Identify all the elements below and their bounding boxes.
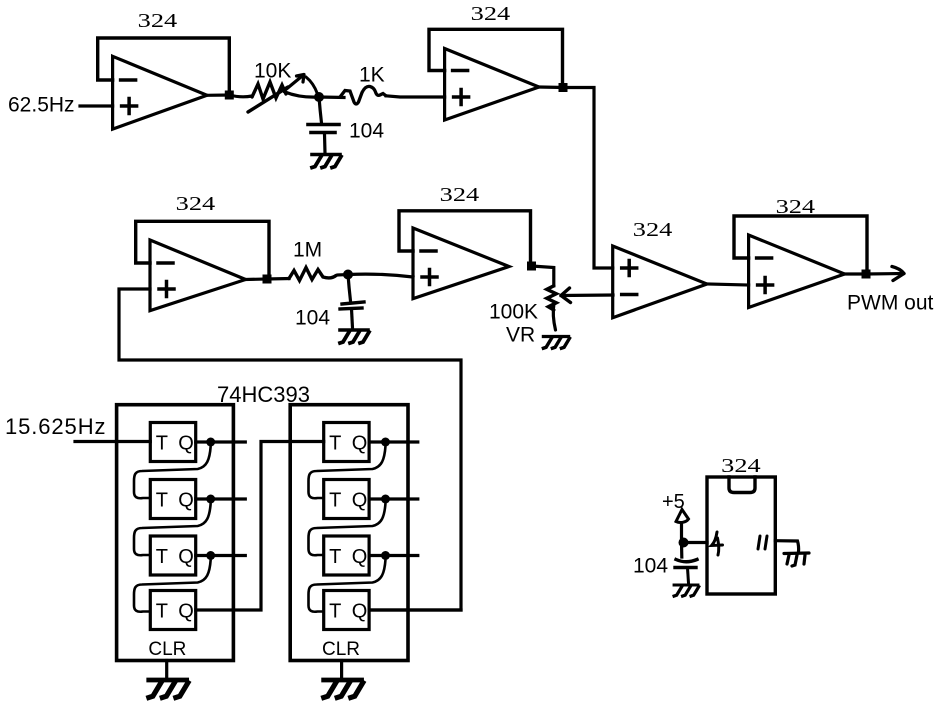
ground C2: [340, 330, 369, 343]
wire node to C1: [319, 97, 322, 123]
wire Q1A to T2A feedback: [134, 446, 211, 498]
potentiometer VR 100K: [547, 286, 571, 330]
flip-flop B2: [324, 480, 369, 519]
wire to 10K: [229, 95, 252, 97]
wire Q3B output stub: [369, 554, 418, 557]
svg-text:104: 104: [633, 555, 668, 578]
op-amp U3: [150, 240, 246, 311]
ground VR: [543, 337, 569, 349]
op-amp U4: [413, 228, 509, 299]
node U1 output: [225, 91, 234, 100]
wire VR wiper to U5: [561, 293, 613, 297]
svg-text:15.625Hz: 15.625Hz: [5, 414, 106, 439]
svg-text:T: T: [156, 490, 168, 512]
wire 10K to node: [285, 92, 319, 97]
node U6 output: [862, 270, 871, 279]
node Q2A: [206, 495, 215, 504]
svg-text:T: T: [156, 433, 168, 455]
svg-text:Q: Q: [352, 601, 368, 623]
wire +5 to node: [680, 523, 683, 543]
feedback wire U3: [136, 221, 269, 279]
wire to 1M: [267, 277, 289, 281]
svg-text:324: 324: [776, 196, 816, 218]
svg-text:T: T: [329, 601, 341, 623]
svg-text:324: 324: [471, 3, 511, 25]
pin label 11 (hand drawn): [758, 536, 767, 549]
svg-text:VR: VR: [506, 324, 535, 347]
wire pin11 to ground: [775, 541, 798, 552]
svg-text:T: T: [156, 546, 168, 568]
capacitor C3 104: [675, 560, 697, 584]
wire U2 to U5: [563, 88, 613, 269]
wire U3 plus feedback: [119, 289, 461, 610]
wire 15.625Hz input: [75, 440, 150, 443]
flip-flop A1: [150, 423, 195, 462]
counter 74HC393 section A box: [117, 405, 234, 661]
node A: [314, 92, 324, 102]
wire node to U4: [348, 274, 413, 277]
svg-text:PWM out: PWM out: [847, 292, 934, 315]
node U2 output: [559, 83, 568, 92]
feedback wire U6: [734, 216, 867, 274]
node B: [343, 270, 353, 280]
svg-text:324: 324: [633, 219, 673, 241]
feedback wire U2: [429, 29, 563, 87]
svg-text:Q: Q: [352, 433, 368, 455]
svg-text:Q: Q: [178, 433, 194, 455]
wire node to C3: [680, 543, 683, 558]
ground C3: [674, 585, 699, 596]
wire U3 output: [246, 277, 267, 281]
svg-text:T: T: [156, 601, 168, 623]
wire node to C2: [348, 275, 351, 302]
wire U1 output: [207, 93, 229, 97]
ground pin11: [784, 553, 809, 566]
wire node to pin4: [684, 541, 708, 544]
node Q1A: [206, 438, 215, 447]
wire U5 to U6: [707, 284, 749, 285]
wire CLR B to ground: [340, 661, 343, 679]
wire Q1B to T2B feedback: [309, 446, 386, 498]
svg-text:CLR: CLR: [322, 639, 360, 660]
wire 1M to node: [338, 273, 348, 277]
flip-flop A2: [150, 480, 195, 519]
ground CLR B: [324, 680, 363, 698]
op-amp U5: [613, 246, 707, 318]
capacitor C1 104: [308, 125, 339, 154]
svg-text:T: T: [329, 546, 341, 568]
svg-text:104: 104: [295, 307, 330, 330]
wire Q2B to T3B feedback: [309, 503, 386, 555]
op-amp U2: [445, 49, 539, 121]
flip-flop B3: [324, 536, 369, 575]
ground CLR A: [149, 680, 188, 698]
wire Q2A output stub: [196, 497, 246, 500]
flip-flop A4: [150, 591, 195, 630]
wire U4 to VR: [532, 266, 554, 286]
node +5: [679, 538, 689, 548]
svg-text:T: T: [329, 433, 341, 455]
wire U2 output: [539, 85, 563, 89]
wire Q4A cascade: [196, 442, 324, 611]
capacitor C2 104: [340, 302, 364, 328]
flip-flop B1: [324, 423, 369, 462]
node Q2B: [381, 495, 390, 504]
pin label 4 (hand drawn): [712, 532, 723, 555]
wire CLR A to ground: [165, 661, 168, 679]
feedback wire U4: [399, 211, 531, 266]
power +5 symbol: [676, 510, 689, 523]
wire Q3B to T4B feedback: [309, 560, 386, 612]
svg-text:Q: Q: [352, 490, 368, 512]
svg-text:324: 324: [721, 455, 761, 477]
wire U6 output: [845, 272, 866, 275]
node Q3A: [206, 551, 215, 560]
svg-text:Q: Q: [178, 490, 194, 512]
svg-text:324: 324: [138, 10, 178, 32]
ground C1: [312, 155, 341, 168]
wire 62.5Hz input: [80, 104, 113, 107]
node Q3B: [381, 551, 390, 560]
wire node to 1K: [319, 95, 344, 99]
node U4 output: [527, 262, 536, 271]
svg-text:Q: Q: [178, 601, 194, 623]
svg-text:Q: Q: [178, 546, 194, 568]
svg-text:1K: 1K: [359, 64, 385, 87]
resistor 1K: [340, 86, 386, 104]
flip-flop B4: [324, 591, 369, 630]
node U3 output: [263, 275, 272, 284]
svg-text:62.5Hz: 62.5Hz: [8, 94, 75, 117]
svg-text:CLR: CLR: [148, 639, 186, 660]
wire 1K to U2: [386, 96, 445, 97]
op-amp U6: [749, 235, 845, 308]
node Q1B: [381, 438, 390, 447]
svg-text:100K: 100K: [489, 301, 538, 324]
wire Q3A output stub: [196, 554, 246, 557]
wire Q2A to T3A feedback: [134, 503, 211, 555]
counter 74HC393 section B box: [290, 405, 408, 661]
resistor 1M: [289, 268, 336, 281]
op-amp U1: [113, 56, 207, 129]
wire Q1B output stub: [369, 440, 418, 443]
svg-text:324: 324: [440, 184, 480, 206]
svg-text:324: 324: [176, 193, 216, 215]
resistor 10K (rheostat): [248, 75, 318, 113]
wire Q3A to T4A feedback: [134, 560, 211, 612]
flip-flop A3: [150, 536, 195, 575]
IC U7 324 body: [707, 477, 775, 594]
wire Q4B output: [369, 608, 461, 611]
wire Q2B output stub: [369, 497, 418, 500]
svg-text:T: T: [329, 490, 341, 512]
svg-text:104: 104: [349, 120, 384, 143]
feedback wire U1: [98, 38, 230, 95]
svg-text:1M: 1M: [293, 239, 322, 262]
svg-text:Q: Q: [352, 546, 368, 568]
wire PWM out arrow: [866, 267, 904, 281]
wire Q1A output stub: [196, 440, 246, 443]
svg-text:10K: 10K: [254, 60, 291, 83]
